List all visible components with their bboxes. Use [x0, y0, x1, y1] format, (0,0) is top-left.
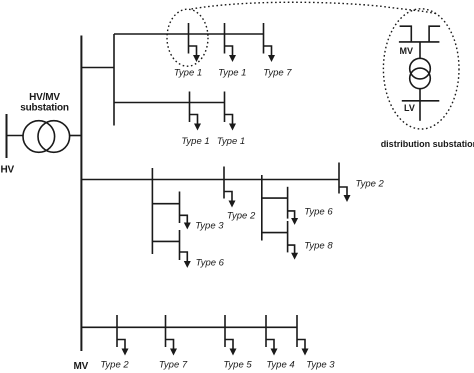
stub wire to Type 3 load: [152, 203, 179, 205]
svg-text:HV: HV: [1, 165, 15, 176]
svg-text:Type 7: Type 7: [263, 67, 292, 78]
load tap F4-5 end: [297, 315, 309, 356]
svg-text:substation: substation: [20, 103, 69, 114]
svg-text:Type 7: Type 7: [159, 359, 188, 370]
MV bus in detail: [399, 41, 440, 43]
HV bus: [6, 114, 8, 158]
sub-branch 3b vertical: [261, 175, 263, 241]
svg-text:Type 1: Type 1: [218, 67, 246, 78]
svg-text:Type 2: Type 2: [100, 359, 129, 370]
svg-text:Type 3: Type 3: [306, 359, 335, 370]
load tap F3 end Type 2: [339, 163, 351, 203]
svg-text:MV: MV: [400, 46, 414, 56]
feeder 2: [114, 102, 225, 104]
load tap F4-4: [266, 315, 278, 356]
MV main bus: [80, 36, 82, 352]
svg-text:Type 8: Type 8: [304, 241, 333, 252]
load tap Type 8: [288, 221, 299, 260]
svg-text:Type 1: Type 1: [181, 136, 209, 147]
sub-branch 3a vertical: [151, 168, 153, 254]
wire HV bus to transformer: [7, 135, 24, 137]
svg-text:Type 1: Type 1: [217, 136, 245, 147]
wire transformer to LV in detail: [419, 89, 421, 121]
switch left in detail: [400, 26, 412, 42]
load tap F1-1: [189, 23, 201, 62]
switch right in detail: [429, 26, 440, 42]
wire MV bus to transformer in detail: [419, 42, 421, 59]
svg-text:LV: LV: [404, 103, 415, 113]
load tap F4-3: [225, 315, 237, 356]
load tap F2-1: [190, 92, 202, 131]
svg-text:Type 4: Type 4: [266, 359, 294, 370]
load tap F3 Type 2 mid: [224, 167, 236, 208]
wire bus to feeder group 1: [81, 67, 115, 69]
load tap F4-2: [166, 315, 178, 356]
dotted connector curve: [192, 2, 437, 13]
load tap F1-2: [225, 23, 237, 62]
feeder 4: [81, 326, 298, 328]
svg-text:Type 6: Type 6: [196, 257, 225, 268]
svg-text:Type 5: Type 5: [223, 359, 252, 370]
svg-text:Type 2: Type 2: [356, 178, 385, 189]
dotted ellipse distribution substation: [383, 9, 459, 129]
stub wire to Type 6 load (branch 3a): [152, 240, 179, 242]
LV bus in detail: [402, 100, 440, 102]
load tap Type 6 (branch 3b): [288, 187, 299, 225]
svg-text:HV/MV: HV/MV: [29, 92, 60, 103]
svg-text:Type 2: Type 2: [227, 210, 256, 221]
stub wire to Type 8 load: [262, 232, 288, 234]
transformer HV/MV (two overlapping circles): [23, 121, 55, 153]
svg-text:Type 3: Type 3: [195, 221, 224, 232]
svg-text:Type 1: Type 1: [174, 67, 202, 78]
load tap F4-1: [117, 315, 129, 356]
svg-text:Type 6: Type 6: [304, 206, 333, 217]
svg-text:distribution substation: distribution substation: [381, 139, 474, 149]
wire transformer to MV bus: [70, 135, 82, 137]
dotted ellipse around load F1-1: [167, 9, 208, 66]
feeder 3: [81, 179, 340, 181]
load tap Type 6 (branch 3a): [180, 230, 191, 268]
load tap F1-3: [264, 23, 276, 62]
transformer MV/LV in detail: [410, 58, 431, 79]
load tap F2-2: [225, 92, 237, 131]
stub wire to Type 6 load (branch 3b): [262, 197, 288, 199]
svg-text:MV: MV: [74, 361, 89, 372]
load tap Type 3: [180, 192, 191, 230]
sub-bus for feeders 1-2: [113, 34, 115, 126]
feeder 1: [114, 33, 264, 35]
